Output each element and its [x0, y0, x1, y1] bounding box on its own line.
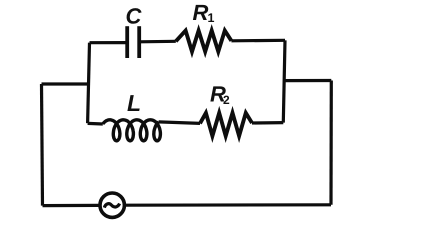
inductor L: [103, 120, 161, 141]
wire bottom right segment: [126, 203, 331, 207]
svg-text:L: L: [127, 90, 141, 116]
wire R2 to bottom-right corner of parallel section: [252, 121, 283, 125]
resistor R2: [200, 113, 252, 136]
capacitor C right plate: [137, 26, 141, 58]
wire bottom left segment: [43, 204, 99, 207]
capacitor C left plate: [125, 26, 129, 58]
ac source tilde symbol: [104, 204, 119, 208]
wire outer left vertical: [42, 84, 43, 206]
wire capacitor to R1: [139, 40, 176, 44]
svg-text:C: C: [126, 4, 143, 29]
wire top-left segment: [90, 41, 128, 44]
wire left tap horizontal: [42, 82, 90, 85]
wire R1 to top-right corner: [231, 39, 285, 43]
svg-text:1: 1: [208, 11, 215, 25]
svg-text:R: R: [193, 0, 209, 25]
svg-text:2: 2: [223, 93, 230, 107]
wire outer right vertical: [329, 81, 332, 205]
wire parallel left vertical: [88, 43, 90, 124]
wire bottom branch lead to coil: [88, 122, 103, 126]
wire right tap horizontal: [284, 79, 331, 82]
wire parallel right vertical: [283, 40, 285, 122]
wire coil to R2: [159, 122, 200, 124]
resistor R1: [176, 31, 232, 52]
ac source circle: [100, 193, 124, 217]
